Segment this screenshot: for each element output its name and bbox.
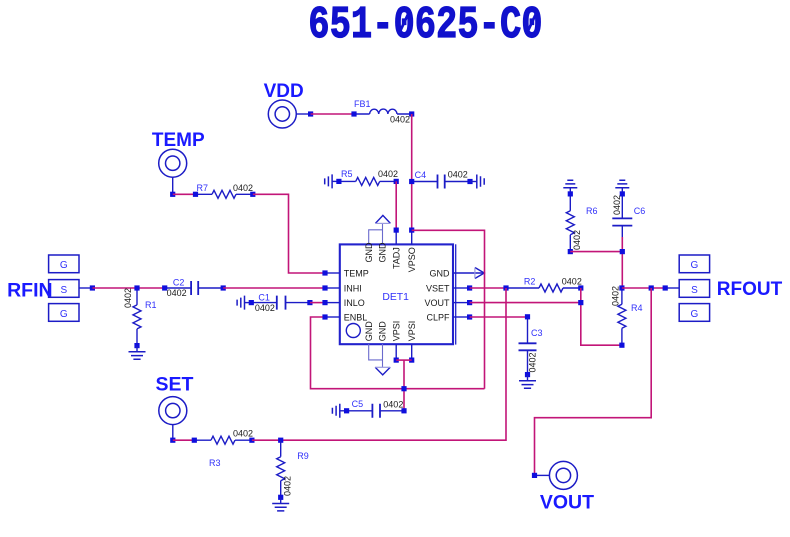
svg-text:GND: GND <box>364 242 374 263</box>
capacitor C1 <box>249 292 313 313</box>
svg-text:S: S <box>691 285 698 296</box>
ground at R6 <box>563 180 577 194</box>
svg-text:INLO: INLO <box>344 298 365 308</box>
svg-text:TEMP: TEMP <box>152 130 205 151</box>
svg-text:C3: C3 <box>531 328 543 338</box>
svg-text:0402: 0402 <box>378 169 398 179</box>
svg-text:0402: 0402 <box>383 400 403 410</box>
wire C2 to INHI <box>223 287 322 289</box>
resistor R5 <box>336 169 399 185</box>
pin GND (right) with arrow <box>430 268 485 279</box>
ground at C4 <box>470 175 484 189</box>
wire VDD net vertical to VPSO <box>411 114 413 230</box>
svg-text:R6: R6 <box>586 206 598 216</box>
svg-text:0402: 0402 <box>562 277 582 287</box>
svg-text:C6: C6 <box>634 206 646 216</box>
port RFOUT G-S-G <box>663 255 783 321</box>
junction RFOUT/VOUT <box>649 285 654 290</box>
resistor R7 <box>193 183 256 198</box>
svg-text:GND: GND <box>364 321 374 342</box>
svg-text:VSET: VSET <box>426 283 450 293</box>
svg-text:VPSO: VPSO <box>407 247 417 272</box>
wire RFIN to C2 <box>92 287 164 289</box>
pin INLO (left) <box>322 298 364 308</box>
svg-text:FB1: FB1 <box>354 99 371 109</box>
svg-text:G: G <box>691 309 699 320</box>
wire R6 to C6 node <box>570 251 622 253</box>
ground at C3 <box>519 375 536 389</box>
svg-text:GND: GND <box>378 321 388 342</box>
capacitor C4 <box>409 170 473 189</box>
wire VSET to R2 <box>470 287 506 289</box>
svg-text:RFIN: RFIN <box>7 279 53 301</box>
svg-text:0402: 0402 <box>527 352 537 372</box>
svg-text:C5: C5 <box>352 399 364 409</box>
svg-text:ENBL: ENBL <box>344 312 368 322</box>
svg-text:R5: R5 <box>341 169 353 179</box>
wire R4 top to RFOUT <box>622 287 665 289</box>
pin VOUT (right) <box>424 298 472 308</box>
wire VPSO to right vertical <box>412 230 485 388</box>
pin VPSI (bottom) x=396.2 <box>391 321 401 363</box>
wire SET to R3 <box>173 439 195 441</box>
svg-text:VPSI: VPSI <box>391 321 401 342</box>
junction VPSI net <box>401 386 406 391</box>
ferrite bead FB1 <box>351 99 414 125</box>
svg-text:RFOUT: RFOUT <box>717 279 783 300</box>
svg-text:0402: 0402 <box>123 288 133 308</box>
pins GND GND (top) with power arrow <box>364 215 390 262</box>
junction R9 tap <box>278 438 283 443</box>
svg-text:0402: 0402 <box>448 170 468 180</box>
svg-text:R7: R7 <box>197 183 209 193</box>
svg-text:0402: 0402 <box>283 476 293 496</box>
svg-text:S: S <box>60 285 67 296</box>
wire VPSI drop to C5 <box>403 360 405 411</box>
wire R2 to R4 bottom <box>581 288 622 345</box>
ground at C1 <box>237 296 251 310</box>
resistor R2 <box>503 277 583 292</box>
svg-text:651-0625-C0: 651-0625-C0 <box>308 0 542 51</box>
pins GND GND (bottom) with ground arrow <box>364 321 390 375</box>
pin VSET (right) <box>426 283 472 293</box>
svg-text:R3: R3 <box>209 458 221 468</box>
svg-text:0402: 0402 <box>390 115 410 125</box>
wire VPSI pair tie <box>396 359 412 361</box>
svg-text:VPSI: VPSI <box>407 321 417 342</box>
ground at C5 <box>332 404 346 418</box>
svg-text:0402: 0402 <box>233 428 253 438</box>
ground at C6 <box>615 180 629 194</box>
ground at R5 <box>325 174 339 188</box>
svg-text:TEMP: TEMP <box>344 268 369 278</box>
wire VOUT pin to node <box>470 302 581 304</box>
resistor R6 <box>566 191 597 254</box>
svg-text:GND: GND <box>378 242 388 263</box>
port VOUT <box>532 461 594 513</box>
svg-text:R2: R2 <box>524 277 536 287</box>
svg-text:0402: 0402 <box>611 286 621 306</box>
pin TADJ (top) <box>391 228 401 270</box>
junction R6/C6 <box>620 249 625 254</box>
resistor R9 <box>277 440 309 500</box>
wire R5 to TADJ <box>395 181 397 230</box>
pin CLPF (right) <box>426 312 472 322</box>
svg-text:0402: 0402 <box>233 183 253 193</box>
wire CLPF to C3 <box>470 316 528 318</box>
svg-text:G: G <box>60 309 68 320</box>
svg-text:G: G <box>60 260 68 271</box>
svg-text:0402: 0402 <box>572 230 582 250</box>
resistor R4 <box>611 285 643 347</box>
ground at R9 <box>272 497 289 511</box>
capacitor C6 <box>612 191 645 237</box>
svg-text:R4: R4 <box>631 303 643 313</box>
wire VDD to FB1 <box>311 113 354 115</box>
svg-text:C2: C2 <box>173 277 185 287</box>
svg-text:G: G <box>691 260 699 271</box>
capacitor C5 <box>344 399 407 418</box>
svg-text:0402: 0402 <box>255 303 275 313</box>
wire R7 to TEMP pin <box>253 194 323 273</box>
wire ENBL to VPSI net <box>311 317 485 389</box>
svg-text:SET: SET <box>156 374 194 396</box>
pin TEMP (left) <box>322 268 368 278</box>
svg-text:CLPF: CLPF <box>426 312 450 322</box>
wire node to VOUT port <box>535 288 652 475</box>
svg-text:0402: 0402 <box>612 195 622 215</box>
svg-text:VOUT: VOUT <box>424 298 450 308</box>
op-amp U1 : detector IC DET1 box <box>340 244 456 344</box>
junction VOUT row <box>578 300 583 305</box>
wire TEMP to R7 <box>173 193 196 195</box>
pin ENBL (left) <box>322 312 367 322</box>
port TEMP <box>152 130 205 197</box>
ground at R1 <box>129 346 146 360</box>
port SET <box>156 374 194 443</box>
svg-text:0402: 0402 <box>167 288 187 298</box>
resistor R3 <box>192 428 255 467</box>
svg-text:VOUT: VOUT <box>540 492 594 514</box>
svg-text:C4: C4 <box>415 170 427 180</box>
port RFIN G-S-G <box>7 255 95 321</box>
wire C6 node down to R4 top <box>621 237 623 288</box>
capacitor C2 <box>162 277 226 298</box>
capacitor C3 <box>519 314 543 377</box>
svg-text:GND: GND <box>430 268 451 278</box>
resistor R1 <box>123 285 156 348</box>
wire C1 to INLO <box>310 302 323 304</box>
pin INHI (left) <box>322 283 361 293</box>
svg-text:C1: C1 <box>258 292 270 302</box>
title 651-0625-C0 <box>308 0 542 51</box>
svg-text:INHI: INHI <box>344 283 362 293</box>
svg-text:DET1: DET1 <box>382 292 409 303</box>
pin VPSI (bottom) x=411.7 <box>407 321 417 363</box>
pin VPSO (top) <box>407 228 417 273</box>
svg-text:TADJ: TADJ <box>391 247 401 269</box>
svg-text:R1: R1 <box>145 300 157 310</box>
svg-text:R9: R9 <box>297 451 309 461</box>
svg-text:VDD: VDD <box>264 81 304 102</box>
port VDD <box>264 81 314 128</box>
wire SET net to VSET node <box>252 288 506 440</box>
